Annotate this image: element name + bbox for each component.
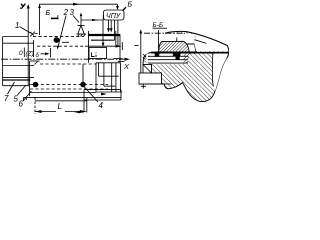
CNC box (104, 10, 125, 20)
section center line (144, 32, 185, 34)
svg-text:ЧПУ: ЧПУ (106, 13, 122, 20)
top wire to CNC box (40, 3, 119, 10)
cross slide flange (84, 90, 121, 101)
leader 2 (57, 8, 69, 50)
svg-text:3: 3 (70, 8, 75, 17)
long feed line dashed then solid with arrow (37, 42, 122, 50)
white band above dome (144, 34, 195, 44)
inner cheek line (186, 37, 207, 44)
svg-text:L: L (58, 102, 62, 111)
white head wedge (195, 34, 229, 51)
lead screw dashed line with bearings (30, 64, 108, 87)
wire trestle to CNC box (81, 15, 103, 21)
turret block right (96, 63, 122, 92)
dimension L (35, 98, 87, 115)
leader 5 (14, 85, 27, 104)
delta dimension (34, 40, 51, 59)
drive component box (89, 48, 107, 59)
main hatched body (143, 31, 229, 101)
datum axis with up arrow (135, 29, 143, 84)
tool block white strip (147, 54, 189, 65)
svg-text:0: 0 (19, 50, 23, 57)
carriage bottom and bed (24, 93, 122, 102)
leader 3 (70, 8, 80, 23)
node dot on path (54, 37, 60, 43)
dashed tool path line (33, 35, 84, 37)
svg-text:Б: Б (128, 2, 133, 9)
section mark B left (46, 10, 59, 19)
leader 4 (84, 86, 104, 110)
svg-text:6: 6 (19, 100, 24, 109)
re-stroke upper outline over white (186, 32, 229, 59)
carriage (30, 61, 97, 96)
white mouth-open pocket (212, 52, 228, 91)
svg-text:(Z): (Z) (26, 51, 34, 58)
tailstock upper block (89, 31, 125, 63)
vertical through square (158, 36, 160, 56)
right hatch wedge below dome (184, 54, 190, 64)
small feed arrow bottom (74, 101, 84, 113)
sensor trestle symbol (77, 13, 86, 37)
axis Y arrow (27, 4, 30, 86)
svg-text:1: 1 (15, 21, 19, 30)
svg-text:У: У (20, 4, 26, 11)
section mark B right (123, 2, 133, 11)
wire from sensor 1 up (38, 4, 41, 35)
small hatch left of block (143, 54, 146, 60)
svg-text:Б: Б (46, 10, 51, 17)
dome (tool) hatched (159, 38, 190, 53)
section title (153, 22, 168, 29)
origin label 0 (Z) (19, 48, 34, 58)
inner jaw edge (212, 52, 213, 86)
leader 7 (4, 82, 15, 103)
lamination lines (148, 56, 189, 63)
tool point mark (30, 32, 38, 37)
svg-text:7: 7 (4, 94, 9, 103)
mouth line thick (151, 52, 229, 54)
leader 6 (19, 91, 32, 109)
leader 1 (15, 21, 31, 33)
svg-text:X: X (123, 62, 130, 71)
left bracket boxes (139, 65, 172, 89)
center line with X axis (1, 58, 130, 71)
short dash right of node (62, 41, 69, 43)
headstock block (3, 37, 34, 86)
svg-text:4: 4 (99, 101, 104, 110)
svg-text:2: 2 (63, 8, 69, 17)
lower dashed line (30, 88, 108, 90)
wires below CNC box (102, 20, 105, 47)
clamp squares (155, 52, 160, 57)
